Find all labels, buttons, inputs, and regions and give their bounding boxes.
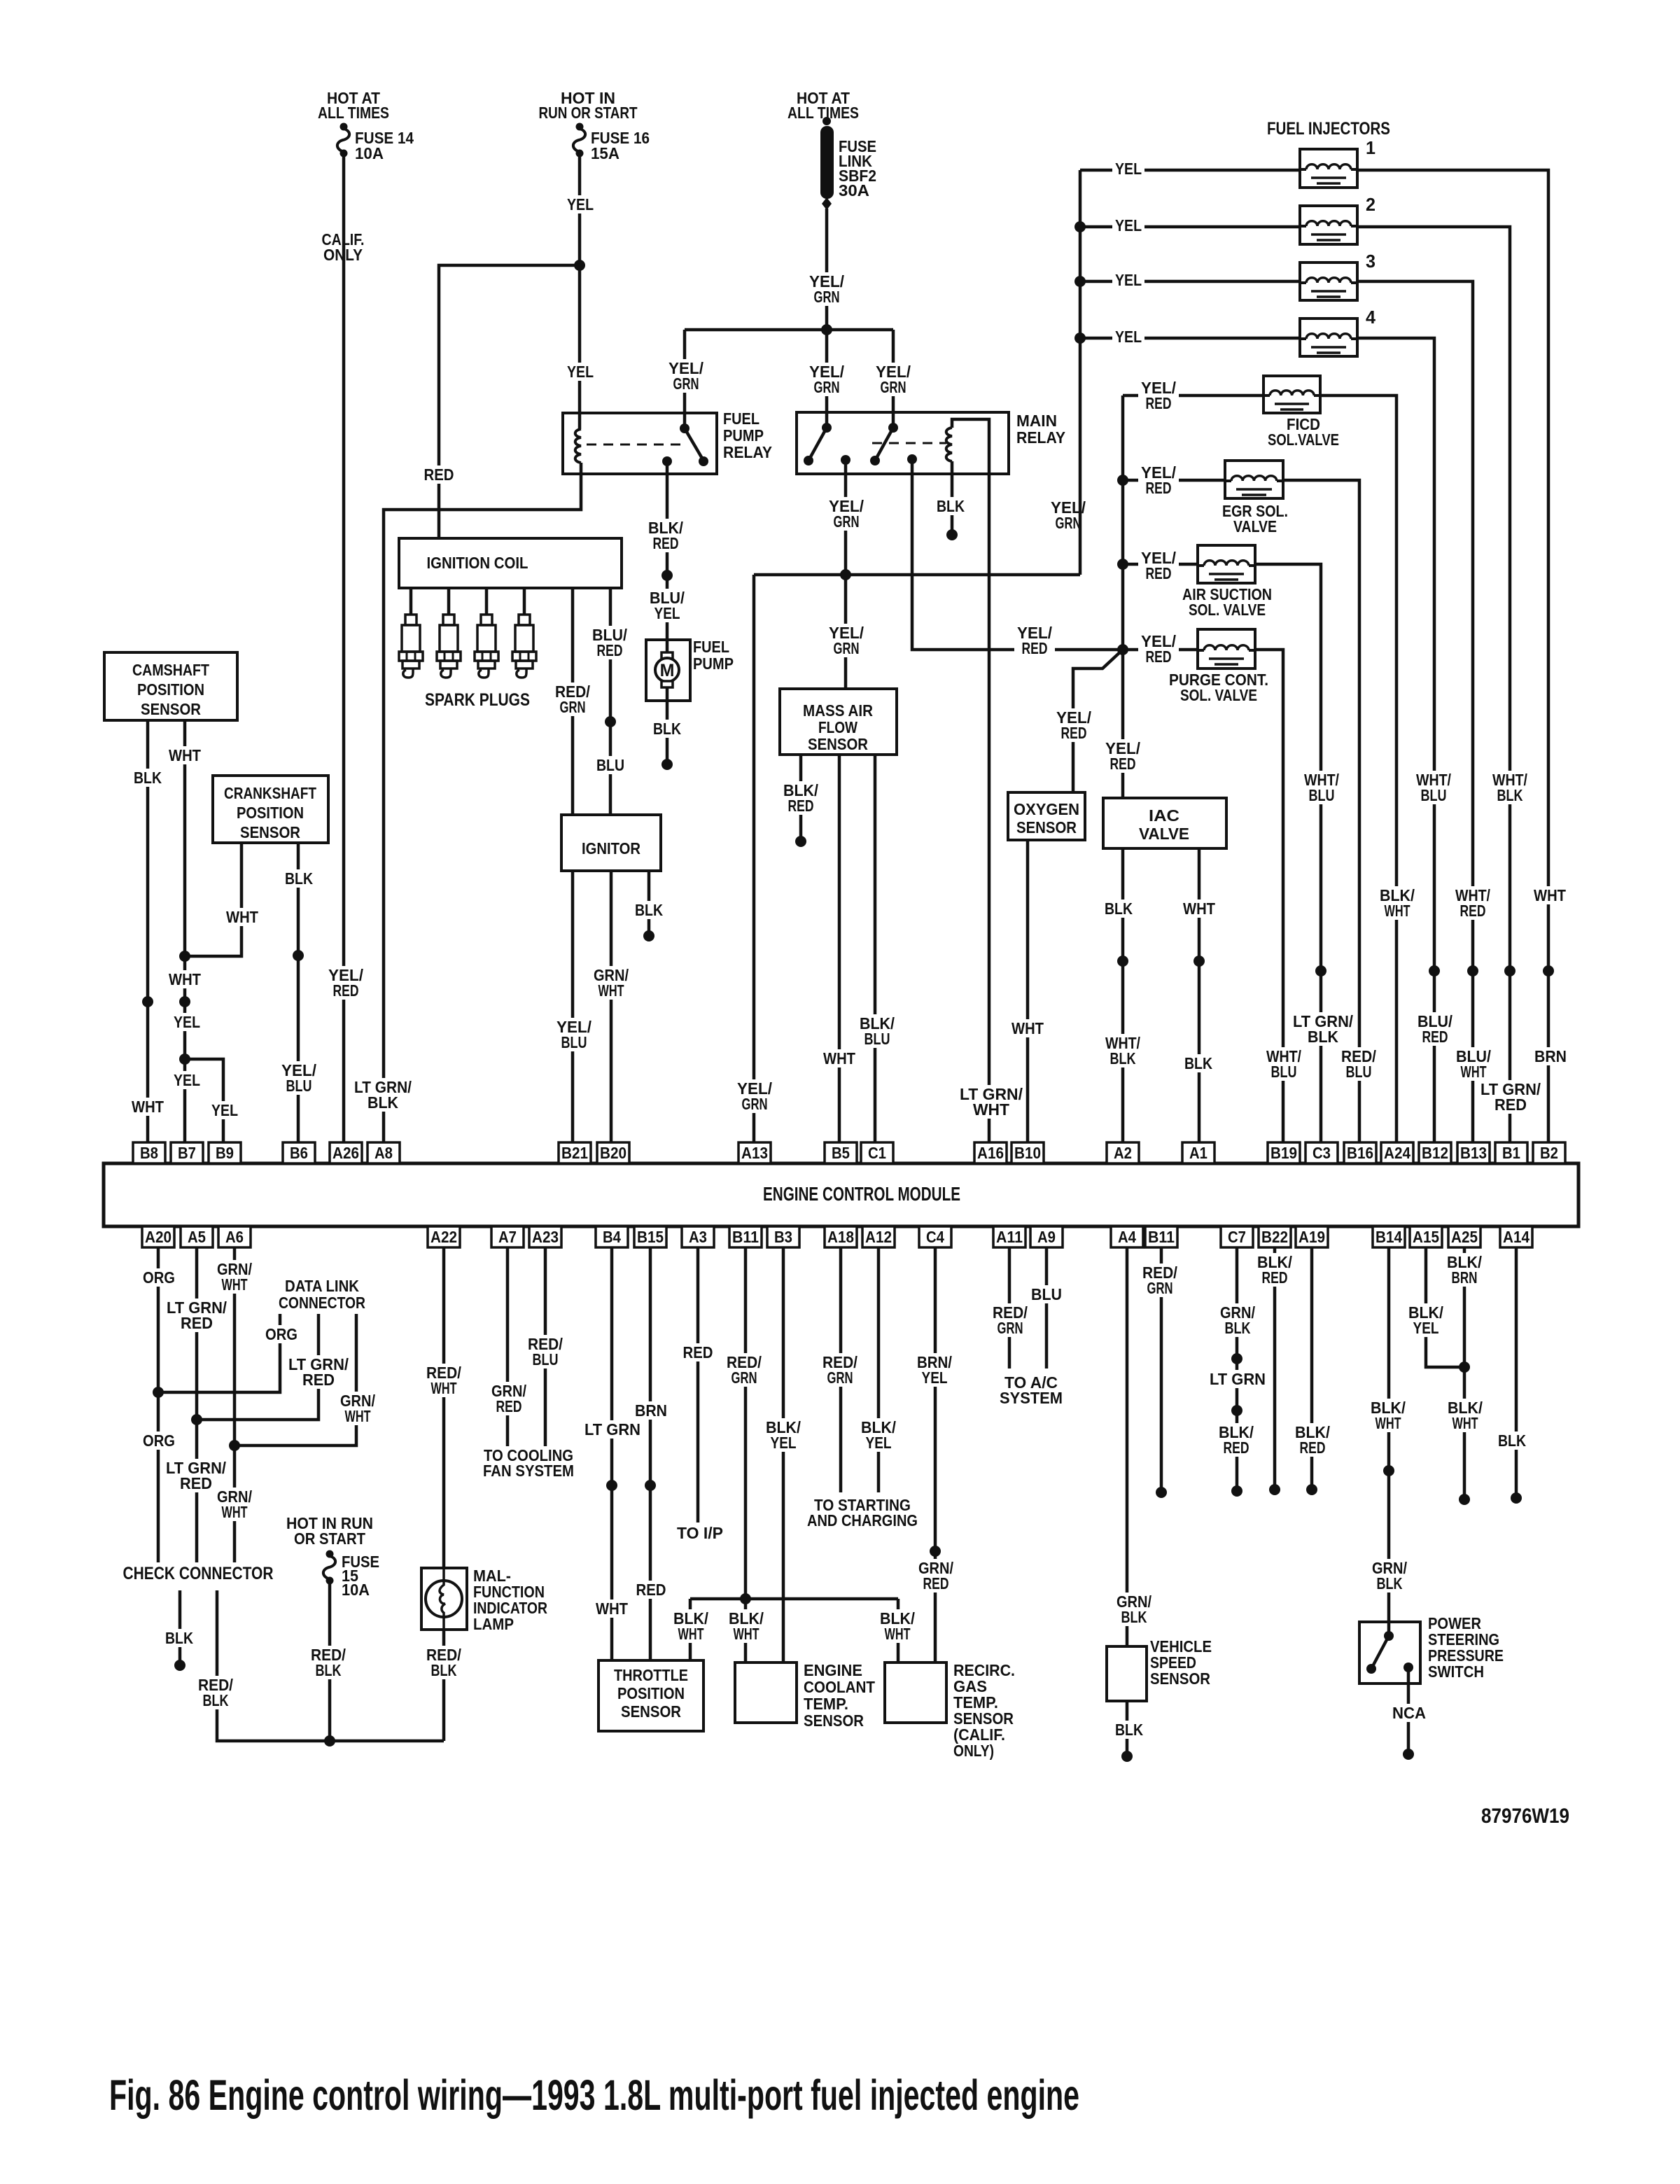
wire YEL branch to ECM B9	[185, 1059, 223, 1142]
connector A25	[1448, 1226, 1480, 1247]
svg-text:GRN: GRN	[814, 288, 840, 306]
label YEL/RED at air suction	[1138, 549, 1179, 582]
connector B9	[209, 1142, 241, 1163]
label diagram code 87976W19	[1481, 1805, 1569, 1828]
svg-text:BLU: BLU	[864, 1030, 890, 1048]
wire YEL/GRN drop to main relay switch 1	[825, 330, 829, 428]
wire YEL/GRN drop to main relay switch 2	[892, 330, 895, 428]
wire BLK/WHT sensor bus	[690, 1597, 898, 1601]
svg-text:GRN: GRN	[731, 1368, 757, 1387]
label BRN above B2	[1532, 1047, 1569, 1065]
camshaft position sensor	[104, 652, 237, 720]
label WHT crankshaft	[223, 908, 261, 926]
wire YEL feed to injector 1	[1080, 169, 1300, 172]
label BLK/YEL A15	[1406, 1303, 1446, 1337]
label YEL/RED above oxygen sensor	[1053, 708, 1094, 742]
svg-text:RED: RED	[1022, 639, 1048, 657]
svg-text:ENGINE: ENGINE	[804, 1661, 862, 1679]
wire YEL/RED to air suction valve	[1123, 563, 1198, 566]
terminal B22	[1269, 1484, 1280, 1495]
svg-text:Fig. 86 Engine control wiring—: Fig. 86 Engine control wiring—1993 1.8L …	[109, 2071, 1079, 2119]
terminal BLK main relay coil	[946, 529, 958, 540]
svg-text:30A: 30A	[839, 181, 869, 199]
wire ORG branch to data link connector	[158, 1314, 280, 1392]
label WHT/BLK on B1 wire	[1490, 771, 1530, 804]
wire BLK/YEL A12 to starting	[877, 1247, 881, 1492]
mass air flow sensor	[780, 689, 897, 755]
label YEL injector 3	[1112, 271, 1144, 289]
label YEL injector 4	[1112, 328, 1144, 346]
connector A20	[142, 1226, 174, 1247]
svg-text:WHT: WHT	[1461, 1063, 1487, 1081]
svg-text:OXYGEN: OXYGEN	[1014, 800, 1079, 818]
wire main relay coil top to ECM A16	[952, 419, 989, 1142]
fuel pump motor symbol	[655, 652, 679, 687]
connector dot BLU/RED-BLU	[605, 716, 616, 727]
svg-text:SENSOR: SENSOR	[1150, 1669, 1210, 1688]
label RED/BLK fuse 15	[308, 1646, 349, 1679]
connector B11	[1145, 1226, 1177, 1247]
MIL lamp symbol	[426, 1568, 462, 1630]
connector B5	[825, 1142, 857, 1163]
label LT GRN/RED DLC	[286, 1355, 351, 1389]
svg-text:BLK: BLK	[1105, 899, 1133, 918]
label RED TPS	[633, 1581, 668, 1599]
fuel pump relay	[563, 413, 717, 474]
label YEL/GRN at fuel pump relay	[666, 359, 706, 393]
svg-text:RELAY: RELAY	[723, 443, 772, 461]
wire LT GRN/RED A5 to check connector	[195, 1247, 199, 1562]
svg-text:WHT: WHT	[678, 1625, 704, 1643]
label POWER STEERING PRESSURE SWITCH	[1428, 1614, 1504, 1681]
svg-text:YEL: YEL	[922, 1368, 948, 1387]
junction A15/A25	[1459, 1361, 1470, 1373]
label FUSE 15 10A	[342, 1553, 379, 1599]
label GRN/RED A7	[489, 1382, 529, 1415]
engine coolant temp sensor	[735, 1662, 797, 1723]
wire BLK/RED B22	[1273, 1247, 1277, 1490]
connector A3	[682, 1226, 714, 1247]
main relay switch2 pivot	[888, 423, 898, 433]
label BLK A14	[1495, 1431, 1529, 1450]
label FUSE 14 10A	[355, 129, 414, 162]
svg-text:RED: RED	[1300, 1438, 1326, 1457]
svg-text:A8: A8	[374, 1144, 393, 1162]
svg-text:GRN: GRN	[881, 378, 906, 396]
connector dot B15	[645, 1480, 656, 1491]
svg-text:A18: A18	[827, 1228, 854, 1246]
label BLK ignitor	[632, 901, 666, 919]
svg-text:RUN OR START: RUN OR START	[539, 104, 638, 122]
label YEL above B7	[171, 1071, 203, 1089]
svg-text:87976W19: 87976W19	[1481, 1805, 1569, 1828]
svg-text:C7: C7	[1228, 1228, 1246, 1246]
svg-text:BLK: BLK	[285, 869, 313, 888]
svg-text:GRN: GRN	[834, 512, 860, 531]
svg-text:3: 3	[1366, 251, 1375, 272]
svg-text:A3: A3	[689, 1228, 707, 1246]
svg-text:A4: A4	[1118, 1228, 1136, 1246]
air suction coil symbol	[1198, 561, 1255, 580]
svg-text:4: 4	[1366, 307, 1376, 328]
svg-text:TO I/P: TO I/P	[677, 1524, 723, 1542]
svg-text:ORG: ORG	[265, 1325, 297, 1343]
svg-text:YEL: YEL	[771, 1434, 797, 1452]
wire RED/WHT A22 to MIL	[442, 1247, 446, 1568]
svg-text:A14: A14	[1503, 1228, 1529, 1246]
svg-text:FAN SYSTEM: FAN SYSTEM	[483, 1462, 574, 1480]
air suction solenoid valve	[1198, 545, 1255, 583]
connector A22	[428, 1226, 460, 1247]
svg-text:FUEL: FUEL	[693, 638, 729, 656]
label LT GRN/RED A5	[164, 1298, 230, 1332]
label HOT IN RUN OR START (fuse 16)	[536, 89, 640, 122]
svg-text:CONNECTOR: CONNECTOR	[279, 1294, 365, 1312]
connector dot BLK-YEL/BLU	[293, 950, 304, 961]
svg-text:B6: B6	[290, 1144, 308, 1162]
label RED/GRN	[552, 682, 593, 716]
main relay switch2 contact	[870, 456, 880, 465]
label WHT/BLU on C3 wire	[1301, 771, 1342, 804]
connector A23	[529, 1226, 561, 1247]
wire YEL from fuse 16 to fuel pump relay coil	[578, 153, 582, 429]
wire GRN/RED A7 to cooling fan	[506, 1247, 510, 1448]
fuse link SBF2 symbol	[820, 117, 834, 210]
svg-text:WHT: WHT	[169, 970, 201, 988]
main relay dashed link	[872, 442, 946, 444]
wire RED/BLU A23 to cooling fan	[544, 1247, 547, 1448]
label YEL above B9	[209, 1101, 241, 1119]
spark plug 4 with wire	[512, 588, 536, 678]
wire BLK/WHT to TPS	[689, 1599, 692, 1660]
svg-text:CRANKSHAFT: CRANKSHAFT	[224, 784, 316, 802]
label YEL/GRN at main relay sw1	[806, 363, 847, 396]
wire BRN B15 to throttle position sensor	[649, 1247, 652, 1660]
svg-text:GRN: GRN	[997, 1319, 1023, 1337]
injector 1 coil symbol	[1300, 164, 1357, 183]
label BLK/YEL B3	[763, 1418, 804, 1452]
svg-text:WHT: WHT	[596, 1599, 628, 1618]
label BLK/WHT A25	[1445, 1399, 1485, 1432]
label WHT TPS	[593, 1599, 631, 1618]
recirc gas temp sensor	[885, 1662, 946, 1723]
svg-text:SENSOR: SENSOR	[240, 823, 300, 841]
label WHT joined	[166, 970, 204, 988]
wire LT GRN B4 to throttle position sensor	[610, 1247, 614, 1660]
wire YEL/GRN main relay sw1 to MAF sensor	[844, 460, 848, 689]
IAC valve	[1103, 798, 1226, 848]
connector dot BLK/RED-BLU/YEL	[661, 570, 673, 581]
injector 3 coil symbol	[1300, 278, 1357, 297]
svg-text:WHT: WHT	[431, 1379, 457, 1397]
wire RED/GRN B11 to coolant sensors	[744, 1247, 748, 1662]
wire YEL/RED to purge valve	[1123, 648, 1198, 652]
wire BLK/RED A19	[1310, 1247, 1314, 1490]
svg-text:BLU: BLU	[1309, 786, 1335, 804]
svg-text:RED: RED	[1110, 755, 1136, 773]
fuse F15 symbol	[323, 1550, 335, 1585]
malfunction indicator lamp	[421, 1568, 467, 1630]
svg-text:IAC: IAC	[1149, 806, 1179, 825]
wire FICD valve to ECM A24	[1320, 395, 1396, 1142]
wire YEL/RED down to IAC valve	[1121, 650, 1125, 798]
label ENGINE COOLANT TEMP. SENSOR	[804, 1661, 875, 1730]
svg-text:YEL: YEL	[1115, 328, 1142, 346]
connector B10	[1011, 1142, 1044, 1163]
svg-text:15A: 15A	[591, 144, 619, 162]
connector B2	[1533, 1142, 1565, 1163]
svg-text:YEL: YEL	[174, 1071, 200, 1089]
label BRN/YEL C4	[914, 1353, 955, 1387]
spark plug 1 with wire	[399, 588, 423, 678]
svg-text:WHT: WHT	[345, 1407, 371, 1425]
connector dot IAC WHT	[1193, 955, 1205, 967]
svg-text:A1: A1	[1189, 1144, 1207, 1162]
wire ORG A20 to check connector	[157, 1247, 160, 1562]
connector B6	[283, 1142, 315, 1163]
wire RED/GRN B11b	[1160, 1247, 1163, 1492]
svg-text:BLK: BLK	[1308, 1028, 1338, 1046]
svg-text:BLK: BLK	[1110, 1049, 1136, 1067]
connector dot B13 wire	[1467, 965, 1478, 976]
svg-text:MASS AIR: MASS AIR	[803, 701, 873, 720]
label MAL-FUNCTION INDICATOR LAMP	[473, 1567, 547, 1633]
label WHT/BLU on B12 wire	[1413, 771, 1454, 804]
connector dot B14	[1383, 1465, 1394, 1476]
connector A1	[1182, 1142, 1214, 1163]
svg-text:FUEL INJECTORS: FUEL INJECTORS	[1267, 119, 1390, 139]
label YEL/RED from sw2	[1014, 624, 1055, 657]
svg-text:POSITION: POSITION	[617, 1684, 685, 1702]
label BLK crankshaft	[282, 869, 316, 888]
wire injector 2 to ECM B1	[1357, 227, 1510, 1142]
wire GRN/WHT branch to data link connector	[234, 1314, 356, 1445]
junction YEL/RED bus	[1117, 644, 1128, 655]
svg-text:LAMP: LAMP	[473, 1615, 514, 1633]
svg-text:DATA LINK: DATA LINK	[285, 1277, 359, 1295]
svg-text:BLK: BLK	[203, 1691, 229, 1709]
svg-text:BLK: BLK	[1184, 1054, 1212, 1072]
svg-text:A9: A9	[1037, 1228, 1056, 1246]
svg-text:SENSOR: SENSOR	[808, 735, 868, 753]
svg-text:RED: RED	[1224, 1438, 1249, 1457]
svg-text:B2: B2	[1540, 1144, 1558, 1162]
svg-text:GRN: GRN	[814, 378, 840, 396]
terminal NCA	[1403, 1749, 1414, 1760]
svg-text:B20: B20	[600, 1144, 626, 1162]
svg-text:YEL: YEL	[654, 604, 680, 622]
svg-text:RED: RED	[1146, 479, 1172, 497]
connector A26	[330, 1142, 362, 1163]
connector dot WHT-YEL	[179, 996, 190, 1007]
label injector number 2	[1366, 194, 1375, 215]
svg-text:BLK: BLK	[653, 720, 681, 738]
wire injector 1 to ECM B2	[1357, 170, 1548, 1142]
svg-text:C1: C1	[868, 1144, 886, 1162]
svg-text:GRN: GRN	[1056, 514, 1081, 532]
label ENGINE CONTROL MODULE	[763, 1183, 960, 1205]
main relay switch2 output pin	[907, 454, 917, 464]
fuel pump	[646, 640, 690, 701]
label BLK/BRN A25	[1444, 1253, 1485, 1287]
connector B22	[1259, 1226, 1291, 1247]
wire BLK/WHT camshaft to ECM B8	[146, 720, 150, 1142]
label YEL/BLU above B21	[554, 1018, 594, 1051]
junction YEL/GRN bus	[821, 324, 832, 335]
wire BLU/RED ignition coil to ignitor	[609, 588, 612, 815]
fuel pump relay switch pivot	[680, 423, 689, 433]
label RED A3	[680, 1343, 716, 1361]
label RED/BLU A23	[525, 1335, 566, 1368]
svg-text:VALVE: VALVE	[1233, 517, 1277, 535]
connector A15	[1410, 1226, 1442, 1247]
connector B7	[171, 1142, 203, 1163]
connector A18	[825, 1226, 857, 1247]
wire RED/GRN A18 to starting	[839, 1247, 843, 1492]
svg-text:WHT: WHT	[598, 981, 624, 1000]
label PURGE CONT. SOL. VALVE	[1166, 671, 1271, 704]
power steering pressure switch	[1359, 1622, 1420, 1683]
svg-text:A22: A22	[430, 1228, 457, 1246]
label GRN/BLK A4	[1114, 1592, 1154, 1626]
svg-text:C4: C4	[926, 1228, 944, 1246]
svg-text:PUMP: PUMP	[693, 654, 734, 673]
svg-text:B3: B3	[774, 1228, 792, 1246]
label BLU A9	[1028, 1285, 1065, 1303]
svg-text:GRN: GRN	[560, 698, 586, 716]
svg-text:BLU: BLU	[1421, 786, 1447, 804]
svg-text:RELAY: RELAY	[1016, 428, 1065, 447]
svg-text:ORG: ORG	[143, 1268, 175, 1287]
svg-text:GRN: GRN	[742, 1095, 768, 1113]
junction fuse16 YEL / RED branch	[574, 260, 585, 271]
wire injector 4 to ECM B12	[1357, 338, 1434, 1142]
connector A13	[738, 1142, 771, 1163]
main relay	[797, 412, 1009, 474]
svg-text:A24: A24	[1384, 1144, 1410, 1162]
wire WHT IAC to ECM A1	[1198, 848, 1201, 1142]
wire BLK/RED fuel pump relay to fuel pump	[666, 461, 669, 652]
connector B16	[1344, 1142, 1376, 1163]
label injector number 3	[1366, 251, 1375, 272]
wire GRN/WHT ignitor to ECM B20	[610, 871, 613, 1142]
svg-text:BLK: BLK	[1497, 786, 1523, 804]
label RED/BLK MIL	[423, 1646, 464, 1679]
svg-text:BLU: BLU	[1271, 1063, 1297, 1081]
svg-text:RED: RED	[424, 465, 454, 484]
connector B3	[767, 1226, 799, 1247]
connector A6	[218, 1226, 251, 1247]
EGR coil symbol	[1225, 476, 1283, 495]
fuse F16 symbol	[573, 123, 585, 157]
label FUEL INJECTORS	[1264, 118, 1393, 139]
svg-text:WHT: WHT	[1011, 1019, 1044, 1037]
label LT GRN/BLK above A8	[351, 1078, 414, 1112]
svg-text:LT GRN: LT GRN	[584, 1420, 640, 1438]
svg-text:B8: B8	[140, 1144, 158, 1162]
spark plug 2 with wire	[437, 588, 461, 678]
label BLK IAC	[1102, 899, 1135, 918]
wire RED branch to ignition coil	[439, 265, 580, 538]
svg-text:RED: RED	[302, 1371, 335, 1389]
svg-text:ENGINE CONTROL MODULE: ENGINE CONTROL MODULE	[763, 1183, 960, 1205]
label BLK/YEL A12	[858, 1418, 899, 1452]
label GRN/BLK B14	[1369, 1559, 1410, 1592]
svg-text:SENSOR: SENSOR	[1016, 818, 1077, 836]
wire YEL injector bus	[1079, 170, 1082, 575]
svg-text:A2: A2	[1114, 1144, 1132, 1162]
svg-text:1: 1	[1366, 137, 1375, 158]
wire NCA power steering switch	[1407, 1667, 1410, 1754]
svg-text:B15: B15	[637, 1228, 664, 1246]
PS switch blade	[1371, 1636, 1389, 1669]
svg-text:RED: RED	[496, 1397, 522, 1415]
label CALIF. ONLY	[319, 230, 367, 264]
svg-text:IGNITION COIL: IGNITION COIL	[427, 554, 528, 572]
connector dot C3 wire	[1315, 965, 1326, 976]
label BLU/YEL above fuel pump	[647, 589, 687, 622]
svg-text:SENSOR: SENSOR	[621, 1702, 681, 1721]
svg-text:B4: B4	[603, 1228, 621, 1246]
svg-text:B11: B11	[732, 1228, 759, 1246]
label CRANKSHAFT POSITION SENSOR	[224, 784, 316, 841]
svg-text:YEL: YEL	[1413, 1319, 1439, 1337]
terminal C7	[1231, 1485, 1242, 1497]
label LT GRN/WHT above A16	[957, 1085, 1025, 1119]
purge control solenoid valve	[1198, 629, 1255, 668]
label GRN/WHT A6	[214, 1260, 255, 1294]
label HOT AT ALL TIMES (fuse 14)	[315, 89, 392, 122]
svg-text:PUMP: PUMP	[723, 426, 764, 444]
svg-text:POSITION: POSITION	[137, 680, 204, 699]
label BLK VSS	[1112, 1721, 1146, 1739]
connector A2	[1107, 1142, 1139, 1163]
svg-text:POSITION: POSITION	[237, 804, 304, 822]
wire GRN/BLK A4 to vehicle speed sensor	[1126, 1247, 1129, 1646]
svg-text:SENSOR: SENSOR	[141, 700, 201, 718]
svg-text:A19: A19	[1298, 1228, 1325, 1246]
svg-text:WHT: WHT	[132, 1098, 164, 1116]
fuel injector 1	[1300, 149, 1357, 188]
svg-text:B1: B1	[1502, 1144, 1520, 1162]
svg-text:10A: 10A	[355, 144, 384, 162]
connector B20	[597, 1142, 629, 1163]
connector A7	[491, 1226, 524, 1247]
svg-text:BLK: BLK	[1121, 1608, 1147, 1626]
ignitor	[561, 815, 661, 871]
terminal A14	[1511, 1492, 1522, 1504]
connector C3	[1305, 1142, 1338, 1163]
svg-text:YEL: YEL	[866, 1434, 892, 1452]
wire WHT camshaft to ECM B7	[183, 720, 187, 1142]
wire WHT MAF to ECM B5	[838, 755, 841, 1142]
fuel pump relay switch blade	[685, 428, 703, 461]
label YEL/RED above A26	[325, 966, 366, 1000]
wire RED/BLK check connector	[217, 1590, 444, 1741]
connector A14	[1500, 1226, 1532, 1247]
wire YEL/GRN from fuse link	[825, 209, 829, 330]
wire BLK fuel pump ground	[666, 687, 669, 764]
svg-text:BLK: BLK	[937, 497, 965, 515]
svg-text:BLK: BLK	[1115, 1721, 1143, 1739]
svg-text:BLK: BLK	[316, 1661, 342, 1679]
junction YEL/GRN at MAF drop	[840, 569, 851, 580]
label WHT above B8	[129, 1098, 167, 1116]
connector B8	[133, 1142, 165, 1163]
wire BLK/YEL A15 joins A25	[1426, 1247, 1464, 1367]
label CHECK CONNECTOR	[120, 1564, 276, 1583]
terminal BLK check connector	[174, 1660, 185, 1671]
